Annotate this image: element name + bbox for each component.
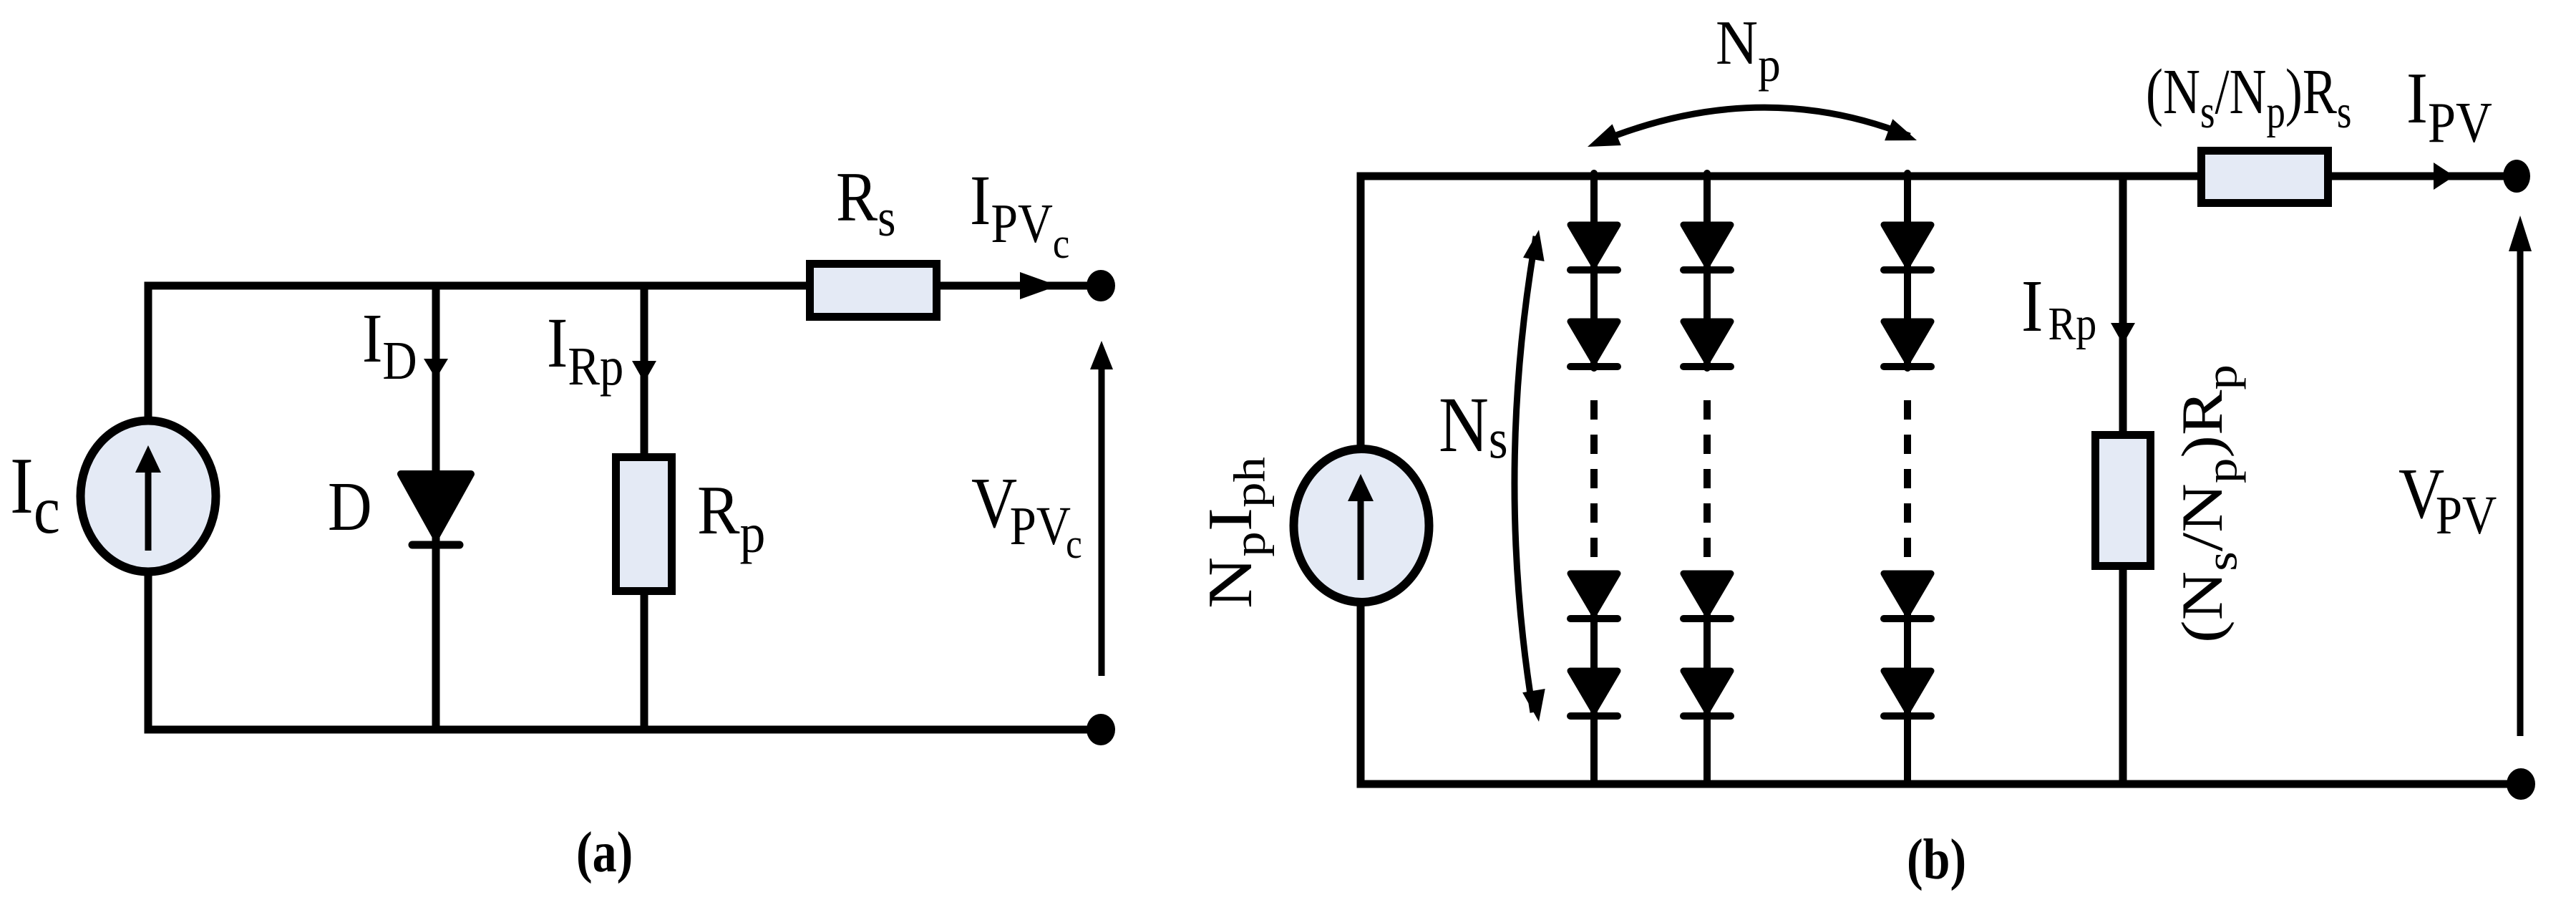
wire left vertical (b) — [1357, 173, 1365, 785]
current source Ic circle — [81, 421, 216, 572]
wire diode branch (a) — [432, 286, 440, 730]
diode string 2 diode 1 — [1683, 225, 1731, 265]
wire diode string 3 dashed middle (b) — [1904, 400, 1911, 561]
output current arrow (a) — [1020, 272, 1058, 299]
svg-text:(b): (b) — [1907, 828, 1966, 891]
wire diode string 3 lower (b) — [1904, 571, 1911, 784]
label D — [328, 468, 372, 545]
label IRp (b) — [2021, 266, 2096, 350]
wire diode string 2 lower (b) — [1703, 571, 1711, 784]
diode string 3 diode 2 — [1884, 321, 1931, 362]
wire diode string 1 upper (b) — [1590, 173, 1598, 368]
diode string 1 diode 1 — [1570, 225, 1618, 265]
label Rp — [697, 473, 765, 565]
current source NpIph arrow — [1348, 474, 1374, 580]
diode string 1 diode 2 — [1570, 321, 1618, 362]
Np arc arrow — [1588, 107, 1917, 147]
voltage arrow VPV — [2509, 216, 2532, 736]
current arrow ID on diode branch — [424, 359, 448, 379]
label IPV — [2406, 57, 2492, 155]
voltage arrow VPVc — [1090, 341, 1113, 676]
label Rs — [836, 158, 895, 248]
node dot top right (b) — [2503, 160, 2530, 193]
label VPVc — [971, 463, 1082, 567]
wire diode string 1 dashed middle (b) — [1590, 400, 1598, 561]
label VPV — [2398, 453, 2497, 546]
diode string 3 diode 3 — [1884, 574, 1931, 614]
label NpIph (rotated) — [1195, 457, 1274, 609]
caption (b) — [1907, 828, 1966, 891]
output current arrow (b) — [2434, 163, 2454, 190]
current source Ic arrow — [135, 445, 161, 551]
current source NpIph circle — [1294, 449, 1429, 602]
diode string 3 diode 4 — [1884, 671, 1931, 711]
wire shunt branch (b) — [2119, 176, 2127, 784]
wire bottom (a) — [145, 726, 1102, 734]
label Ic — [10, 441, 60, 548]
diode string 2 diode 2 — [1683, 321, 1731, 362]
wire top-right from Rs to output node (b) — [2325, 173, 2517, 180]
wire top (a) — [148, 282, 812, 290]
label (Ns/Np)Rp (rotated) — [2170, 364, 2246, 643]
wire diode string 2 dashed middle (b) — [1703, 400, 1711, 561]
label Ns — [1439, 382, 1508, 470]
diode string 2 diode 4 — [1683, 671, 1731, 711]
label Np — [1716, 8, 1781, 92]
label ID — [362, 300, 417, 391]
resistor Rs box — [810, 264, 937, 317]
svg-text:D: D — [328, 468, 372, 545]
node dot top right (a) — [1087, 270, 1115, 301]
diode string 1 diode 4 — [1570, 671, 1618, 711]
wire diode string 1 lower (b) — [1590, 571, 1598, 784]
diode string 3 diode 1 — [1884, 225, 1931, 265]
diode string 1 diode 3 — [1570, 574, 1618, 614]
wire diode string 3 upper (b) — [1904, 173, 1911, 368]
svg-text:(a): (a) — [576, 821, 633, 884]
resistor (Ns/Np)Rp box — [2096, 435, 2151, 566]
diode D triangle — [401, 474, 471, 537]
wire top (b) — [1361, 173, 2204, 180]
resistor Rp box — [616, 458, 672, 591]
wire left vertical (a) — [145, 282, 152, 730]
wire diode string 2 upper (b) — [1703, 173, 1711, 368]
caption (a) — [576, 821, 633, 884]
wire bottom (b) — [1357, 780, 2521, 788]
resistor (Ns/Np)Rs box — [2202, 151, 2328, 203]
node dot bottom right (a) — [1087, 714, 1115, 745]
wire top-right from Rs to output node (a) — [934, 282, 1102, 290]
current arrow IRp (b) — [2111, 323, 2135, 344]
label (Ns/Np)Rs — [2146, 55, 2351, 137]
wire Rp branch (a) — [641, 286, 648, 730]
svg-text:(Ns/Np)Rs: (Ns/Np)Rs — [2146, 55, 2351, 137]
label IPVc — [970, 161, 1069, 268]
label IRp — [547, 304, 623, 397]
diode D cathode bar — [412, 541, 460, 549]
node dot bottom right (b) — [2507, 768, 2535, 800]
Ns arc arrow — [1515, 230, 1545, 722]
diode string 2 diode 3 — [1683, 574, 1731, 614]
current arrow IRp on Rp branch — [632, 361, 656, 382]
